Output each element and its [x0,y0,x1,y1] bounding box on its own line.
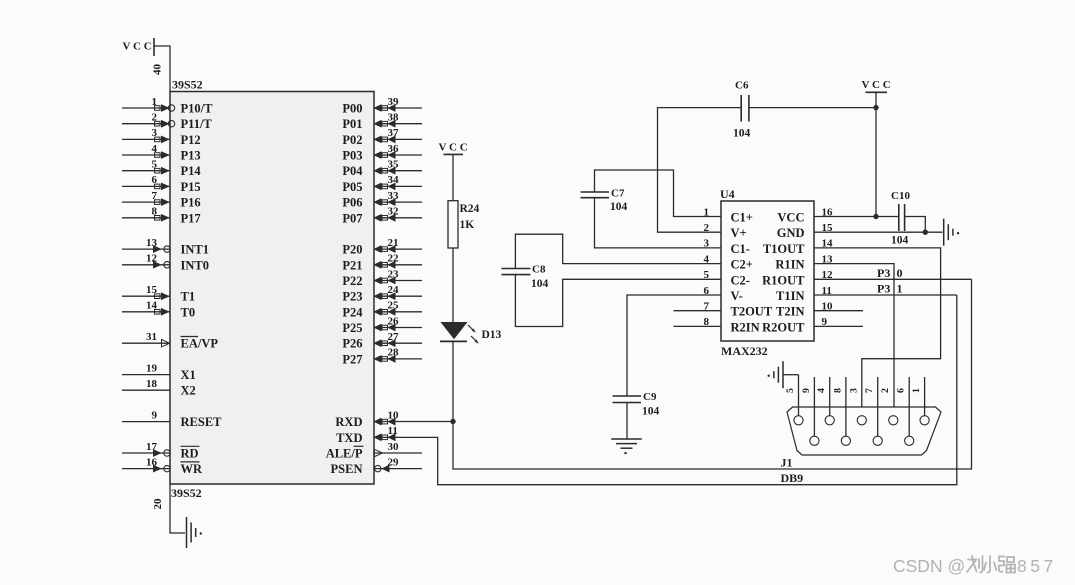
U4 pin 12 (R1OUT) label [762,269,833,287]
svg-text:104: 104 [642,406,660,418]
svg-text:18: 18 [146,378,158,390]
J1 pin 3 [848,388,866,425]
capacitor C10 [899,204,905,231]
U4 pin 9 (R2OUT) label [762,316,827,334]
J1 pin 2 [880,388,898,425]
LED D13 [440,323,479,344]
wire U4 pin13 R1IN to DB9 pin2 [814,264,894,416]
svg-text:7: 7 [152,190,158,202]
svg-text:33: 33 [388,190,400,202]
svg-text:C8: C8 [532,264,546,276]
MCU pin 3 (P12) [122,127,201,147]
pin 40 label [152,64,164,76]
label C8 104 [531,264,549,291]
svg-text:39: 39 [388,96,400,108]
svg-text:X1: X1 [181,368,196,382]
svg-text:21: 21 [388,237,399,249]
U4 pin 2 (V+) label [704,222,747,240]
svg-text:P16: P16 [181,196,201,210]
U4 pin 11 (T1IN) label [776,285,832,303]
J1 pin 1 [911,377,929,425]
MCU pin 10 (RXD) [335,409,399,429]
svg-text:12: 12 [146,253,158,265]
svg-text:4: 4 [816,388,827,393]
svg-text:DB9: DB9 [781,471,804,485]
watermark CSDN [893,556,1057,576]
U4 pin 4 (C2+) label [704,253,753,271]
svg-text:V C C: V C C [862,79,891,91]
svg-text:P14: P14 [181,164,202,178]
svg-text:1K: 1K [460,219,475,231]
svg-text:P23: P23 [342,290,362,304]
wire VCC to pin 40 [154,46,170,92]
svg-text:V C C: V C C [123,41,152,53]
svg-text:22: 22 [388,253,400,265]
MCU pin 17 (RD) [122,441,200,461]
U4 pin 1 (C1+) label [704,206,753,224]
MCU pin 11 (TXD) [336,425,398,445]
svg-text:C1-: C1- [731,242,750,256]
svg-text:27: 27 [388,331,400,343]
svg-text:P17: P17 [181,211,201,225]
svg-text:WR: WR [181,462,204,476]
MCU pin 29 (PSEN) [331,456,422,476]
J1 pin 9 [801,377,819,445]
wire U4 pin11 T1IN [814,294,957,296]
MCU pin 38 (P01) [342,112,422,132]
svg-text:5: 5 [785,388,796,393]
svg-text:R2IN: R2IN [731,320,760,334]
connector J1 DB9 body [787,407,941,455]
J1 pin 8 [832,377,850,445]
MCU pin 33 (P06) [342,190,422,210]
resistor R24 [448,201,458,248]
label C6 104 [733,80,751,140]
svg-text:P07: P07 [342,211,362,225]
svg-text:P06: P06 [342,196,362,210]
MCU pin 1 (P10/T) [122,96,213,116]
svg-text:13: 13 [146,237,158,249]
wire TXD (MCU pin11) to MAX232 T1IN [374,295,957,485]
MCU pin 8 (P17) [122,206,201,226]
svg-text:31: 31 [146,331,157,343]
capacitor C9 [613,396,642,403]
wire U4 pin14 T1OUT to DB9 pin3 [814,248,941,416]
wire VCC to R24 [452,154,454,200]
svg-text:P15: P15 [181,180,201,194]
svg-text:C7: C7 [611,188,625,200]
svg-text:6: 6 [896,388,907,393]
svg-text:8: 8 [832,388,843,393]
U4 pin 8 (R2IN) label [704,316,760,334]
svg-text:P20: P20 [342,243,362,257]
svg-text:GND: GND [777,226,805,240]
U4 pin 7 (T2OUT) label [704,301,773,319]
svg-text:P04: P04 [342,164,363,178]
svg-text:P26: P26 [342,337,362,351]
MCU pin 9 (RESET) [122,409,222,429]
capacitor C7 [581,192,610,198]
svg-text:J1: J1 [781,456,793,470]
svg-text:16: 16 [146,456,158,468]
svg-text:PSEN: PSEN [331,462,363,476]
svg-text:2: 2 [152,112,158,124]
svg-text:P05: P05 [342,180,362,194]
svg-text:30: 30 [388,441,400,453]
MCU pin 30 (ALE/P) [326,441,422,461]
MCU pin 36 (P03) [342,143,422,163]
MCU 89S52 body [170,92,374,485]
MCU pin 25 (P24) [342,300,422,320]
label C7 104 [610,188,628,214]
MCU pin 12 (INT0) [122,253,209,273]
U4 pin 13 (R1IN) label [775,253,833,271]
svg-text:8: 8 [152,206,158,218]
MCU pin 2 (P11/T) [122,112,212,132]
label 39S52 (bottom) [171,486,202,500]
wire RXD (MCU pin10) to node [374,421,453,423]
svg-text:C9: C9 [643,391,657,403]
svg-text:9: 9 [152,409,158,421]
svg-text:14: 14 [146,300,158,312]
svg-text:20: 20 [152,498,164,510]
MCU pin 26 (P25) [342,315,422,335]
svg-text:R1OUT: R1OUT [762,273,805,287]
svg-text:T1: T1 [181,290,196,304]
svg-text:P11/T: P11/T [181,117,213,131]
wire DB9 pin5 to ground [783,374,799,376]
svg-text:104: 104 [610,201,628,213]
MCU pin 28 (P27) [342,347,422,367]
svg-text:VCC: VCC [777,211,804,225]
svg-text:2: 2 [880,388,891,393]
svg-text:37: 37 [388,127,400,139]
svg-text:R24: R24 [460,203,480,215]
wire U4 pin16 VCC to C10 [814,216,899,218]
U4 pin 7 wire [674,310,722,312]
ground (DB9 pin5) [768,361,784,388]
svg-text:P13: P13 [181,149,201,163]
svg-text:P3: P3 [877,266,890,280]
svg-text:P02: P02 [342,133,362,147]
svg-text:ALE/P: ALE/P [326,447,363,461]
MCU pin 18 (X2) [122,378,196,398]
svg-text:RESET: RESET [181,415,223,429]
svg-text:9: 9 [801,388,812,393]
svg-text:P01: P01 [342,117,362,131]
label net P3 0 [877,266,903,280]
U4 pin 6 (V-) label [704,285,743,303]
svg-text:P25: P25 [342,321,362,335]
MCU pin 31 (EA/VP) [122,331,218,351]
svg-text:5: 5 [152,159,158,171]
svg-text:P03: P03 [342,149,362,163]
power VCC symbol (R24) [439,142,468,155]
MCU pin 35 (P04) [342,159,422,179]
svg-text:1: 1 [911,388,922,393]
svg-text:34: 34 [388,174,400,186]
svg-text:39S52: 39S52 [171,486,202,500]
ground (U4 pin15) [944,219,960,246]
U4 pin 10 wire [814,310,863,312]
ground (MCU pin 20) [187,517,203,548]
svg-text:15: 15 [146,284,158,296]
wire C8 to U4 pin5 C2- [515,275,721,327]
U4 pin 3 (C1-) label [704,238,750,256]
node C10/GND [923,230,928,235]
MCU pin 32 (P07) [342,206,422,226]
svg-text:3: 3 [848,388,859,393]
U4 pin 5 (C2-) label [704,269,750,287]
MCU pin 5 (P14) [122,159,201,179]
capacitor C6 [741,95,749,122]
svg-text:INT0: INT0 [181,258,209,272]
svg-text:1: 1 [152,96,158,108]
MCU pin 37 (P02) [342,127,422,147]
wire U4 pin2 V+ to C6 [658,108,742,233]
wire U4 pin1 C1+ to C7 [595,170,722,217]
svg-text:C10: C10 [891,190,910,202]
MCU pin 34 (P05) [342,174,422,194]
svg-text:T1OUT: T1OUT [763,242,805,256]
wire RXD node to MAX232 R1OUT [453,279,972,469]
svg-text:36: 36 [388,143,400,155]
U4 pin 9 wire [814,325,863,327]
label MAX232 [721,344,768,358]
svg-text:T2OUT: T2OUT [731,305,773,319]
svg-text:C2-: C2- [731,273,750,287]
label C10 104 [891,190,910,247]
U4 pin 14 (T1OUT) label [763,238,833,256]
MCU pin 14 (T0) [122,300,195,320]
svg-text:7: 7 [864,388,875,393]
svg-text:C1+: C1+ [731,211,753,225]
MCU pin 6 (P15) [122,174,201,194]
svg-text:CSDN @: CSDN @ [893,556,965,576]
label D13 [482,329,502,341]
svg-text:X2: X2 [181,384,196,398]
MCU pin 39 (P00) [342,96,422,116]
capacitor C8 [502,269,531,275]
J1 pin 7 [864,377,882,445]
MCU pin 20 wire [170,484,185,533]
MCU pin 22 (P21) [342,253,422,273]
label C9 104 [642,391,660,418]
svg-text:V C C: V C C [439,142,468,154]
svg-text:11: 11 [388,425,398,437]
J1 pin 6 [896,377,914,445]
node RXD junction [450,419,455,424]
svg-text:3: 3 [152,127,158,139]
wire C7 to U4 pin3 C1- [595,198,722,248]
J1 pin 4 [816,377,834,425]
label R24 1K [460,203,480,231]
U4 pin 8 wire [674,325,722,327]
node VCC/C6 [873,105,878,110]
svg-text:T2IN: T2IN [776,305,804,319]
U4 pin 16 (VCC) label [777,206,833,224]
IC U4 MAX232 body [721,201,814,341]
svg-text:28: 28 [388,347,400,359]
MCU pin 16 (WR) [122,456,203,476]
svg-text:10: 10 [388,409,400,421]
J1 pin 5 [785,375,803,425]
svg-text:6: 6 [152,174,158,186]
wire U4 pin6 V- to C9 [627,295,721,396]
svg-text:R2OUT: R2OUT [762,320,805,334]
U4 pin 10 (T2IN) label [776,301,833,319]
svg-text:V+: V+ [731,226,747,240]
label DB9 [781,471,804,485]
svg-text:29: 29 [388,456,400,468]
svg-text:INT1: INT1 [181,243,209,257]
MCU pin 21 (P20) [342,237,422,257]
label net P3 1 [877,282,903,296]
label 39S52 (top) [172,78,203,92]
svg-text:25: 25 [388,300,400,312]
svg-text:T1IN: T1IN [776,289,804,303]
svg-text:P27: P27 [342,352,362,366]
svg-text:23: 23 [388,268,400,280]
svg-text:P24: P24 [342,305,363,319]
node pin16/VCC [873,214,878,219]
MCU pin 15 (T1) [122,284,195,304]
svg-text:26: 26 [388,315,400,327]
MCU pin 7 (P16) [122,190,201,210]
svg-text:1: 1 [897,282,903,296]
MCU pin 23 (P22) [342,268,422,288]
svg-text:P12: P12 [181,133,201,147]
wire VCC down to U4 pin16 [875,92,877,216]
svg-text:P10/T: P10/T [181,102,214,116]
svg-text:39S52: 39S52 [172,78,203,92]
svg-text:104: 104 [891,235,909,247]
svg-text:4: 4 [152,143,158,155]
svg-text:MAX232: MAX232 [721,344,768,358]
svg-text:38: 38 [388,112,400,124]
U4 pin 15 (GND) label [777,222,833,240]
wire C10 to GND wire [905,217,926,233]
MCU pin 27 (P26) [342,331,422,351]
power VCC symbol (MCU pin 40) [123,38,155,56]
svg-text:P22: P22 [342,274,362,288]
pin 20 label [152,498,164,510]
svg-text:40: 40 [152,64,164,76]
svg-text:C2+: C2+ [731,258,753,272]
svg-text:R1IN: R1IN [775,258,804,272]
svg-text:P00: P00 [342,102,362,116]
wire U4 pin15 GND to ground [814,231,943,233]
wire C6 to VCC node [749,107,876,109]
svg-text:V-: V- [731,289,743,303]
svg-text:RD: RD [181,447,199,461]
wire C8 to U4 pin4 C2+ [515,234,721,268]
svg-text:D13: D13 [482,329,502,341]
MCU pin 13 (INT1) [122,237,209,257]
svg-text:P21: P21 [342,258,362,272]
wire C9 to ground [626,403,628,440]
svg-text:19: 19 [146,362,158,374]
power VCC symbol (right) [862,79,891,92]
wire R24 to D13 [452,248,454,323]
svg-text:0: 0 [897,266,903,280]
svg-text:104: 104 [531,278,549,290]
svg-text:104: 104 [733,128,751,140]
label J1 [781,456,793,470]
MCU pin 24 (P23) [342,284,422,304]
svg-text:857: 857 [1017,556,1057,576]
MCU pin 19 (X1) [122,362,196,382]
svg-text:24: 24 [388,284,400,296]
svg-text:U4: U4 [720,187,735,201]
svg-text:RXD: RXD [335,415,362,429]
svg-text:T0: T0 [181,305,196,319]
svg-text:17: 17 [146,441,158,453]
svg-text:32: 32 [388,206,400,218]
svg-text:EA/VP: EA/VP [181,337,219,351]
MCU pin 4 (P13) [122,143,201,163]
ground (C9) [611,439,642,454]
svg-text:P3: P3 [877,282,890,296]
svg-text:C6: C6 [735,80,749,92]
wire D13 to RXD node [452,341,454,421]
wire U4 pin12 R1OUT [814,278,972,280]
svg-text:TXD: TXD [336,431,362,445]
label U4 [720,187,735,201]
svg-text:35: 35 [388,159,400,171]
